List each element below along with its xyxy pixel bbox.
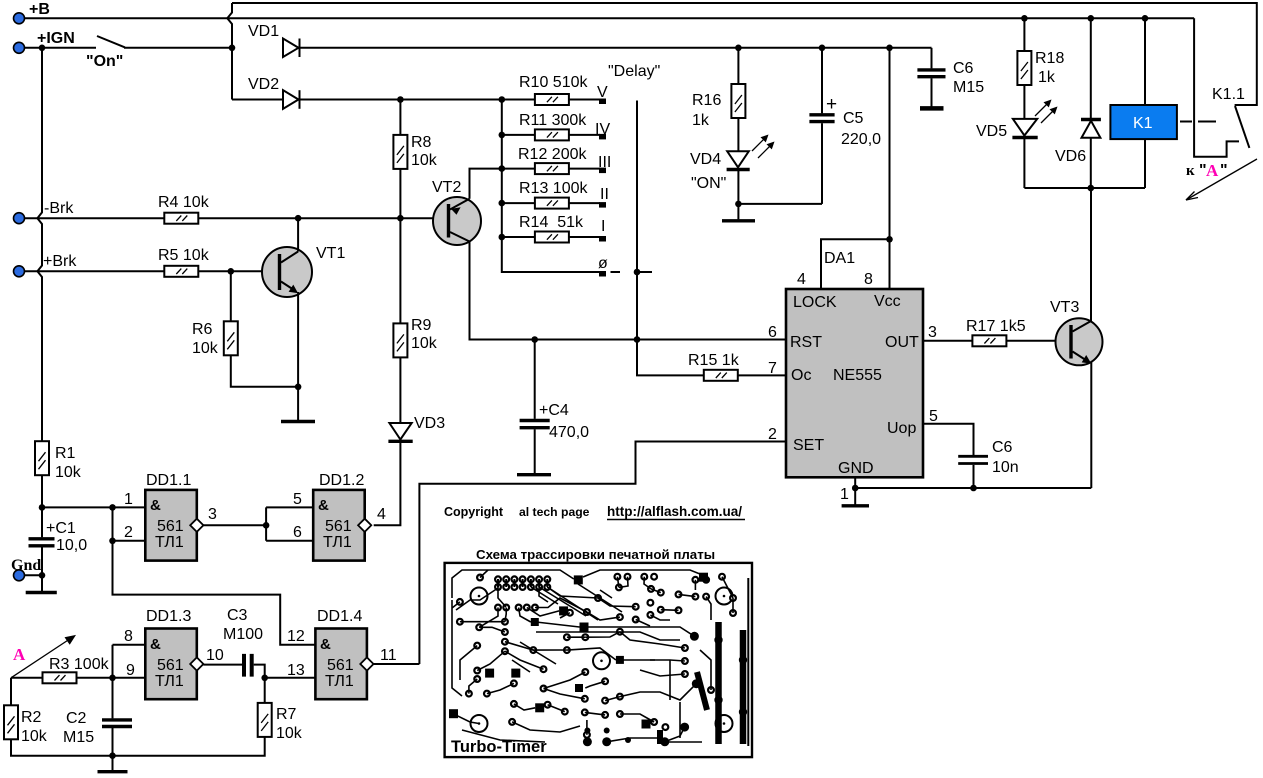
label +C4 470,0 [539,402,589,441]
wire R15 to Oc pin7 [738,374,786,376]
svg-text:R8: R8 [411,134,432,151]
capacitor C6 10n [958,456,988,488]
svg-text:R11 300k: R11 300k [519,112,587,129]
wire DD1.3 out to C3 [203,664,242,666]
svg-text:A: A [13,645,26,664]
svg-text:RST: RST [790,334,822,351]
svg-text:4: 4 [377,506,386,523]
svg-text:LOCK: LOCK [793,294,837,311]
junction R16 at rail [735,45,742,52]
svg-text:R4 10k: R4 10k [158,194,210,211]
svg-text:VD4: VD4 [690,151,721,168]
junction VT1 collector node [295,215,302,222]
svg-text:IV: IV [595,121,610,138]
svg-text:&: & [150,497,161,514]
PCB mounting hole bottom-left [471,715,488,732]
wire C5 bottom link [738,203,822,205]
resistor R13 [535,198,569,209]
node -Brk terminal [14,213,25,224]
ground NE555 pin1 [842,488,869,506]
resistor R18 [1017,51,1031,85]
svg-text:561: 561 [157,657,184,674]
resistor R5 [164,266,198,277]
node Gnd terminal [14,570,25,581]
resistor R3 [43,672,77,683]
label R1 10k [55,445,82,481]
svg-text:R9: R9 [411,317,432,334]
junction VD6 at +B rail [1088,15,1095,22]
junction R8/R9 at base row [397,215,404,222]
wire R9 leads [399,218,401,423]
label R8 10k [411,134,438,169]
wire R17 to VT3 base [1006,340,1070,342]
svg-text:10: 10 [206,647,224,664]
ground C1 [26,591,57,594]
svg-text:M15: M15 [63,729,94,746]
ground VT1 emitter [281,387,315,422]
svg-text:1k: 1k [692,112,710,129]
PCB board outline [445,563,752,757]
wire R13 right [569,202,600,204]
junction C5 at rail [819,45,826,52]
resistor R12 [535,163,569,174]
junction R6 tap [228,268,235,275]
junction R18 at +B rail [1021,15,1028,22]
wire R6 upper lead [230,271,232,321]
wire node to DD1.1 pin1 [42,506,145,508]
wire R5 to VT1 base [198,270,278,272]
svg-text:M100: M100 [223,626,263,643]
svg-text:5: 5 [293,491,302,508]
svg-text:VT1: VT1 [316,245,345,262]
svg-text:7: 7 [768,360,777,377]
svg-text:10,0: 10,0 [56,537,87,554]
wire R18 top lead [1023,18,1025,51]
junction C6 bottom [970,485,977,492]
label к "A" [1186,161,1228,180]
resistor R16 [731,84,745,118]
wire LOCK pin4 bracket [821,239,890,289]
svg-text:1k: 1k [1038,69,1056,86]
svg-text:11: 11 [380,647,397,664]
svg-text:&: & [320,636,331,653]
svg-text:Vcc: Vcc [874,293,901,310]
svg-text:5: 5 [929,408,938,425]
resistor R8 [393,135,407,169]
svg-text:I: I [601,218,605,235]
node tap V [599,99,606,105]
svg-text:OUT: OUT [885,334,919,351]
junction VT1 emitter/R6 [295,384,302,391]
svg-text:GND: GND [838,460,874,477]
svg-text:Gnd: Gnd [11,557,41,574]
wire R8 leads [399,100,401,219]
junction wiper at RST row [634,336,641,343]
capacitor C6 M15 [917,48,945,109]
wire +Brk row [25,270,165,272]
junction +IGN branch [39,45,46,52]
capacitor C1 [29,507,55,591]
svg-text:+IGN: +IGN [37,30,75,47]
svg-text:C2: C2 [66,710,87,727]
resistor R4 [164,213,198,224]
PCB thin traces [452,570,733,742]
svg-text:VD5: VD5 [976,123,1007,140]
wire K1 top lead [1144,18,1146,105]
svg-text:R7: R7 [276,706,297,723]
capacitor C5 [809,48,834,204]
wire VT2 emitter to bus R12 row [470,169,502,199]
wire DD1.3 input tie [113,645,146,678]
svg-text:Oc: Oc [791,367,811,384]
PCB pad rows [477,575,550,611]
svg-text:10k: 10k [276,725,303,742]
svg-text:II: II [600,186,609,203]
svg-text:R6: R6 [192,321,213,338]
relay coil K1 [1110,105,1177,139]
wire R14 left [502,236,535,238]
svg-text:M15: M15 [953,79,984,96]
svg-text:10k: 10k [21,728,48,745]
node +Brk terminal [14,266,25,277]
node tap IV [599,134,606,140]
wire VT1 emitter [297,292,299,387]
wire K1 bottom lead [1144,139,1146,188]
junction K1 at +B rail [1142,15,1149,22]
node tap I [599,236,606,242]
gate DD1.1 [145,490,203,561]
wire R4 to VT2 base [198,217,447,219]
svg-text:ø: ø [598,255,608,272]
junction DD1.2 inputs branch [263,522,270,529]
wire +IGN vertical with hops [37,48,42,441]
junction C4 tap [531,336,538,343]
PCB mounting hole centre [593,652,610,669]
wire wiper vertical [637,101,704,376]
PCB mounting hole top-right [716,588,733,605]
PCB big dots [583,632,701,747]
svg-text:"ON": "ON" [691,175,726,192]
svg-text:3: 3 [928,324,937,341]
capacitor C4 [520,340,550,474]
svg-text:2: 2 [768,426,777,443]
wire VT2 collector to RST [470,242,787,340]
svg-text:+Brk: +Brk [43,253,77,270]
junction wiper at 0 row [634,269,641,276]
label +C1 10,0 [46,520,87,554]
wire DD1.1 out [203,524,266,526]
label VD4 "ON" [690,151,726,192]
wire VD3 cathode to DD1.2 out [374,443,401,526]
junction pins 1/2 branch [109,504,116,511]
svg-text:NE555: NE555 [833,367,882,384]
svg-text:DD1.4: DD1.4 [317,608,362,625]
label C6 10n [992,439,1019,476]
junction pin2 [109,538,116,545]
wire pin2 branch vertical to DD1.4 pin12 [113,507,316,644]
resistor R14 [535,232,569,243]
wire switch to VD1 node [124,47,232,49]
junction GND node [852,485,859,492]
wire VD5 cathode [1023,139,1025,188]
svg-text:III: III [598,154,611,171]
wire VT1 collector [297,218,299,251]
wire R16 leads [737,48,739,151]
svg-text:2: 2 [124,524,133,541]
label R7 10k [276,706,303,742]
svg-text:Uop: Uop [887,420,916,437]
wire Vcc pin8 column [889,48,891,289]
wire selector bus vertical [502,100,599,273]
wire GND pin1 [854,477,856,488]
resistor R9 [393,323,407,357]
switch "On" blade [97,36,125,47]
label C3 M100 [223,607,263,643]
svg-text:12: 12 [287,628,305,645]
svg-text:R14 51k: R14 51k [519,214,584,231]
svg-text:http://alflash.com.ua/: http://alflash.com.ua/ [607,504,742,519]
wire VD1 cathode rail [299,47,932,49]
svg-text:Схема трассировки печатной пла: Схема трассировки печатной платы [476,547,715,562]
wire pin2 stub [113,540,146,542]
transistor VT2 [433,197,481,245]
switch wiper contact dash [611,271,621,273]
svg-text:C6: C6 [953,60,974,77]
svg-text:470,0: 470,0 [549,424,589,441]
capacitor C2 [102,678,132,756]
wire DD1.4 out [374,663,420,665]
PCB thick traces [660,578,748,746]
svg-text:8: 8 [864,271,873,288]
svg-text:10n: 10n [992,459,1019,476]
svg-text:-Brk: -Brk [44,200,74,217]
node +B terminal [14,13,25,24]
svg-text:3: 3 [208,506,217,523]
op-amp U1 NE555 body [786,289,923,477]
wire top rail [232,3,1257,105]
svg-text:DD1.1: DD1.1 [146,472,191,489]
svg-text:Turbo-Timer: Turbo-Timer [451,738,547,756]
svg-text:VT3: VT3 [1050,299,1079,316]
wire C3 to pin13 [254,665,316,678]
node tap II [599,202,606,208]
svg-text:10k: 10k [411,335,438,352]
resistor R10 [535,94,569,105]
junction VD1 anode [229,45,236,52]
svg-text:A: A [1206,161,1219,180]
resistor R11 [535,129,569,140]
capacitor C3 [244,654,252,677]
wire R13 left [502,202,535,204]
svg-text:&: & [318,497,329,514]
wire GND rail to VT3 emitter [855,487,1091,489]
svg-text:al tech page: al tech page [519,505,590,519]
junction bus R14 [499,234,506,241]
svg-text:DA1: DA1 [824,250,855,267]
resistor R6 [224,321,238,355]
label R6 10k [192,321,219,357]
gate DD1.3 [145,629,203,700]
wire R18 to VD5 [1023,85,1025,119]
PCB mounting hole top-left [471,588,488,605]
contact K1.1 blade [1235,106,1249,148]
junction VD4/C5 bottom [735,201,742,208]
svg-text:K1: K1 [1133,115,1153,132]
svg-text:DD1.3: DD1.3 [146,608,191,625]
resistor R2 [4,705,18,739]
svg-text:R13 100k: R13 100k [519,180,588,197]
resistor R15 [704,370,738,381]
junction C1 bottom [39,572,46,579]
svg-text:C3: C3 [227,607,248,624]
wire VD2 anode from vertical [232,99,283,101]
svg-text:561: 561 [325,518,352,535]
svg-text:V: V [597,84,608,101]
wire K1.1 linkage dashes [1180,121,1216,123]
wire SET pin2 [419,442,786,665]
svg-text:10k: 10k [55,464,82,481]
wire +B rail [25,17,1195,19]
svg-text:Copyright: Copyright [444,505,504,519]
junction R1/C1 node [39,504,46,511]
wire R3 to pin9 [77,677,113,679]
wire Uop pin5 [923,424,974,455]
wire -Brk row [25,217,165,219]
svg-text:8: 8 [124,628,133,645]
wire DD1.2 input stubs [266,507,313,540]
svg-text:SET: SET [793,437,824,454]
svg-text:9: 9 [126,662,135,679]
junction C3/R7/pin13 [261,675,268,682]
LED VD4 [727,135,775,170]
wire R12 left [502,168,535,170]
label R16 1k [692,92,721,129]
svg-text:R17 1k5: R17 1k5 [966,318,1026,335]
svg-text:ТЛ1: ТЛ1 [155,673,184,690]
label C2 M15 [63,710,94,746]
wire arrow to A [1186,159,1257,200]
svg-text:13: 13 [287,662,305,679]
node A corner [11,677,43,679]
svg-text:+B: +B [29,1,50,18]
wire arrow A [11,635,76,678]
svg-text:+C1: +C1 [46,520,76,537]
label + C5 220,0 [826,94,881,148]
wire R6 bottom to emitter node [231,355,298,387]
svg-text:R10 510k: R10 510k [519,74,588,91]
junction Vcc at rail [886,45,893,52]
svg-text:"Delay": "Delay" [608,63,660,80]
svg-text:R18: R18 [1035,50,1064,67]
svg-text:к: к [1186,163,1195,179]
wire R2 top lead [10,678,12,706]
PCB mounting hole bottom-right [716,715,733,732]
svg-text:VD1: VD1 [248,23,279,40]
label R18 1k [1035,50,1064,86]
svg-text:R5 10k: R5 10k [158,247,210,264]
diode VD6 [1081,18,1101,188]
svg-text:DD1.2: DD1.2 [319,472,364,489]
svg-text:C6: C6 [992,439,1013,456]
svg-text:C5: C5 [843,110,864,127]
gate DD1.2 [313,490,371,561]
svg-text:561: 561 [157,518,184,535]
wire VD4 cathode [737,171,739,204]
label link alflash [607,504,745,520]
junction bus R11 [499,132,506,139]
svg-text:4: 4 [797,271,806,288]
junction pin9/R3/C2 [109,675,116,682]
wire VT3 collector [1090,188,1092,322]
PCB square pads [449,573,708,729]
svg-text:1: 1 [840,486,849,503]
PCB scattered pads [457,574,736,738]
svg-text:R2: R2 [21,709,42,726]
junction bus R12 [499,165,506,172]
wire vertical link with hop over +B [227,3,232,100]
svg-text:ТЛ1: ТЛ1 [325,673,354,690]
svg-text:ТЛ1: ТЛ1 [323,534,352,551]
transistor VT1 [262,247,312,297]
label R2 10k [21,709,48,745]
resistor R17 [972,335,1006,346]
svg-text:1: 1 [124,491,133,508]
svg-text:VD6: VD6 [1055,148,1086,165]
svg-text:561: 561 [327,657,354,674]
svg-text:&: & [150,636,161,653]
svg-text:+C4: +C4 [539,402,569,419]
node tap III [599,168,606,174]
ground VD4 [722,204,755,221]
label R9 10k [411,317,438,352]
svg-text:VD2: VD2 [248,76,279,93]
svg-text:VD3: VD3 [414,415,445,432]
resistor R1 [35,441,49,475]
wire VT3 emitter [1090,362,1092,488]
wire 0 row stub right [637,271,652,273]
wire VD2 cathode to bus [299,99,535,101]
svg-text:10k: 10k [411,152,438,169]
svg-text:K1.1: K1.1 [1212,86,1245,103]
svg-text:220,0: 220,0 [841,131,881,148]
diode VD1 [283,39,300,58]
label C6 M15 [953,60,984,96]
wire R11 left [502,134,535,136]
svg-text:"On": "On" [86,53,123,70]
ground C4 [517,473,551,476]
contact K1.1 fixed terminal [1194,18,1239,157]
resistor R7 [258,703,272,737]
svg-text:R12 200k: R12 200k [518,146,587,163]
svg-text:6: 6 [768,324,777,341]
wire R10 right [569,99,600,101]
transistor VT3 [1056,318,1103,365]
junction R8 top [397,96,404,103]
wire R1 bottom [41,475,43,507]
svg-text:6: 6 [293,524,302,541]
svg-text:+: + [826,94,837,115]
junction bottom rail ground [109,752,116,759]
svg-text:R15 1k: R15 1k [688,352,740,369]
node +IGN terminal [14,42,25,53]
wire relay bottom rail [1024,187,1145,189]
svg-text:R3 100k: R3 100k [49,656,110,673]
junction LOCK/Vcc [886,236,893,243]
svg-text:ТЛ1: ТЛ1 [155,534,184,551]
gate DD1.4 [315,629,373,700]
svg-text:R1: R1 [55,445,76,462]
junction VT3 collector node [1088,185,1095,192]
